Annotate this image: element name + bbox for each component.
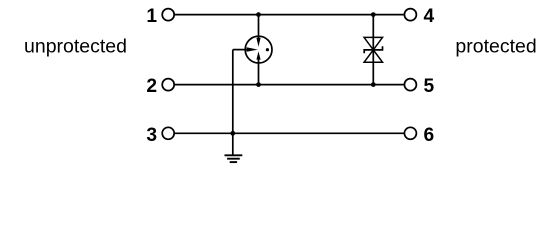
wire gas tube vertical bottom (arrester to line2) [258,59,260,85]
junction dot line2 / TVS [371,82,376,87]
ground symbol [225,155,243,162]
gas discharge tube F1 circle [245,36,272,63]
svg-text:5: 5 [423,76,434,97]
gas discharge tube left electrode arrow [247,47,258,52]
svg-text:unprotected: unprotected [24,36,127,58]
gas discharge tube inner dot [266,48,269,51]
wire line 3 (terminal 3 to terminal 6) [175,132,405,134]
gas discharge tube bottom electrode arrow [256,51,260,59]
terminal circle 6 [404,127,416,139]
terminal circle 1 [162,9,174,21]
svg-text:3: 3 [146,125,157,146]
terminal circle 4 [404,9,416,21]
junction dot line1 / TVS [371,12,376,17]
wire line 1 (terminal 1 to terminal 4) [175,14,405,16]
wire ground branch vertical (crosses line 2, joins line 3) [232,50,234,134]
junction dot line1 / gas tube [256,12,261,17]
suppressor diode top triangle [364,37,382,50]
gas discharge tube top electrode arrow [256,38,260,47]
junction dot line2 / gas tube [256,82,261,87]
svg-text:1: 1 [146,6,157,27]
suppressor diode bottom triangle [364,50,382,62]
wire ground stub below line 3 [232,133,234,154]
svg-text:protected: protected [455,36,536,58]
wire ground branch horizontal (arrester left electrode) [233,49,247,51]
wire gas tube vertical top (line1 to arrester) [258,15,260,39]
wire TVS vertical (line1 to line2) [372,15,374,85]
svg-text:2: 2 [146,76,157,97]
terminal circle 3 [162,127,174,139]
suppressor diode center bar with zener tabs [364,46,382,53]
svg-text:4: 4 [423,6,434,27]
terminal circle 5 [404,79,416,91]
wire line 2 (terminal 2 to terminal 5) [175,84,405,86]
svg-text:6: 6 [423,125,434,146]
terminal circle 2 [162,79,174,91]
junction dot line3 / ground branch [230,131,235,136]
